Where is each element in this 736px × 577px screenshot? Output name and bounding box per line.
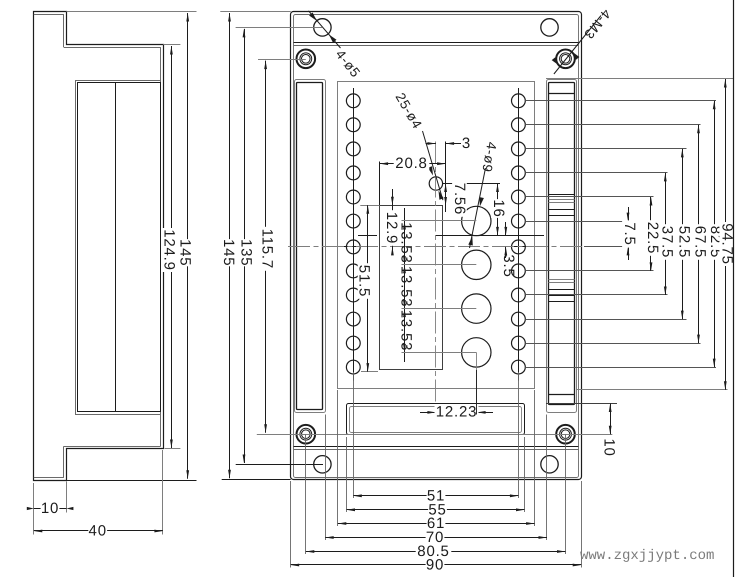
dimension 82.5 [714,101,716,367]
hole D5 top-left [314,19,331,36]
dimension 16 [497,184,499,236]
dimension 51 [353,495,518,497]
vertical centerline middle hole [435,142,437,415]
right rail outer [547,80,577,413]
dimension 40 [34,530,163,532]
ext line x162.9 [162,450,164,535]
front view outer rect [291,12,582,480]
dimension 22.5 [650,197,652,271]
leader 25-D4 [423,131,443,200]
svg-text:3.5: 3.5 [500,254,517,277]
ext line flange bottom [165,448,181,450]
dimension 52.5 [682,149,684,319]
dimension 61 [338,523,535,525]
dimension 12.23 [420,412,436,414]
svg-text:13.53: 13.53 [397,222,414,264]
left rail outer [295,80,326,413]
svg-text:25-ø4: 25-ø4 [393,90,426,132]
crosshair left hole [344,246,363,248]
ext line D9 column down [476,370,478,415]
hole D5 bottom-left [314,456,331,473]
dimension 90 [291,564,582,566]
dimension 115.7 [265,61,267,433]
svg-text:145: 145 [177,239,194,266]
ext top front [220,11,290,13]
svg-text:51.5: 51.5 [356,265,373,297]
svg-text:7.56: 7.56 [451,183,468,215]
svg-text:3: 3 [462,135,471,152]
ext line subrect left up [379,162,381,206]
svg-text:4-ø9: 4-ø9 [479,141,499,174]
svg-text:www.zgxjjypt.com: www.zgxjjypt.com [580,548,714,564]
svg-text:13.53: 13.53 [397,310,414,352]
dimension 80.5 [306,551,566,553]
dimension 55 [347,509,525,511]
right rail inner [549,83,575,405]
hole row projection lines [525,100,716,102]
ext line y389.7 [577,389,728,391]
dimension chain 13.53 [404,208,406,362]
leader 4-M3 [554,16,601,75]
svg-text:40: 40 [89,523,107,540]
ext line x33.8 [33,483,35,535]
ext middle hole row [443,183,500,185]
side view outer profile [34,12,164,481]
dimension 3 [426,143,436,145]
right rail segment cap top [549,93,575,95]
svg-text:12.23: 12.23 [436,404,478,421]
ext rail bottom right [546,403,617,405]
vertical centerline D9 below [476,352,478,414]
dimension 135 [244,29,246,463]
dimension 7.5 [628,207,630,221]
line y235.4 left [358,235,377,237]
ext bottom front [222,479,291,481]
hole D4 middle [429,177,442,190]
hole column right centerline [518,88,520,381]
svg-text:135: 135 [237,239,254,266]
ext line flange top [163,44,180,46]
right rail segment lines [549,194,575,196]
front view inner rect [294,15,579,478]
svg-text:67.5: 67.5 [692,226,709,258]
svg-text:13.53: 13.53 [397,266,414,308]
dimension 145 side [187,13,189,479]
hole D5 top-right [541,19,558,36]
svg-text:115.7: 115.7 [259,229,276,269]
ext line x66.4 [66,482,68,513]
side view cavity outer rect [76,81,161,415]
side view inner contour top [34,14,64,16]
screw hole M3 top-right [556,50,575,69]
dimension 7.56 [444,184,447,193]
dimension 70 [325,537,547,539]
dimension 37.5 [665,173,667,295]
ext line side top [66,11,196,13]
ext D5 row bottom [236,464,323,466]
svg-text:10: 10 [41,500,59,517]
dimension 145 front [229,13,231,478]
ext M3 row bottom [257,434,613,436]
inner sub rect [380,206,443,370]
front view bottom band line [294,446,579,448]
svg-text:20.8: 20.8 [395,155,427,172]
screw hole M3 top-left [297,50,316,69]
svg-text:52.5: 52.5 [675,226,692,258]
svg-text:10: 10 [601,438,618,456]
svg-text:16: 16 [490,199,507,217]
dimension 51.5 [367,205,369,371]
left rail inner [297,83,323,410]
ext line side bottom baseline [66,480,196,482]
hole column left (12x D4) [346,94,360,108]
side view cavity divider [115,83,117,411]
side view inner contour right [160,47,162,446]
screw hole M3 bottom-right [556,425,575,444]
svg-text:4-M3: 4-M3 [581,6,614,42]
side view cavity inner rect [78,83,161,412]
hole column left centerline [353,88,355,381]
right rail segment cap bottom [549,394,575,396]
dimension 67.5 [698,125,700,343]
dimension 12.9 [392,189,394,212]
ext line x445.6 [445,142,447,213]
ext M3 row top [258,59,306,61]
central recess rect [338,82,535,389]
svg-text:4-ø5: 4-ø5 [333,47,364,81]
svg-text:124.9: 124.9 [161,229,178,271]
front view top band line [294,42,579,44]
svg-text:37.5: 37.5 [658,226,675,258]
bottom extension lines [353,372,355,498]
side view inner contour bottom [64,446,161,448]
ext lines D9 centers [402,220,477,222]
dimension 10 [34,508,67,510]
ext tick y371.6 [361,371,378,373]
screw hole M3 bottom-left [297,425,316,444]
ext D5 row top [236,27,323,29]
leader 4-D9 [470,168,486,248]
hole column right (12x D4) [512,94,526,108]
crosshair right hole [509,246,528,248]
bottom slot outer [347,404,525,435]
hole D5 bottom-right [541,456,558,473]
line y235.4 right [436,235,544,237]
dimension 10 right [610,404,612,435]
right border line [733,0,735,577]
dimension 124.9 [171,46,173,448]
dimension 20.8 [380,163,446,165]
svg-text:90: 90 [426,557,444,574]
holes 4x D9 [462,206,491,235]
ext line rail top right [546,78,734,80]
ext line y205.2 [360,205,379,207]
svg-text:7.5: 7.5 [621,222,638,245]
bottom slot inner [350,407,522,433]
dimension 3.5 [505,222,507,235]
svg-text:94.75: 94.75 [718,223,735,265]
svg-text:145: 145 [220,239,237,266]
dimension 94.75 [725,79,727,390]
leader 4-D5 [309,11,341,48]
horizontal centerline [288,246,584,248]
